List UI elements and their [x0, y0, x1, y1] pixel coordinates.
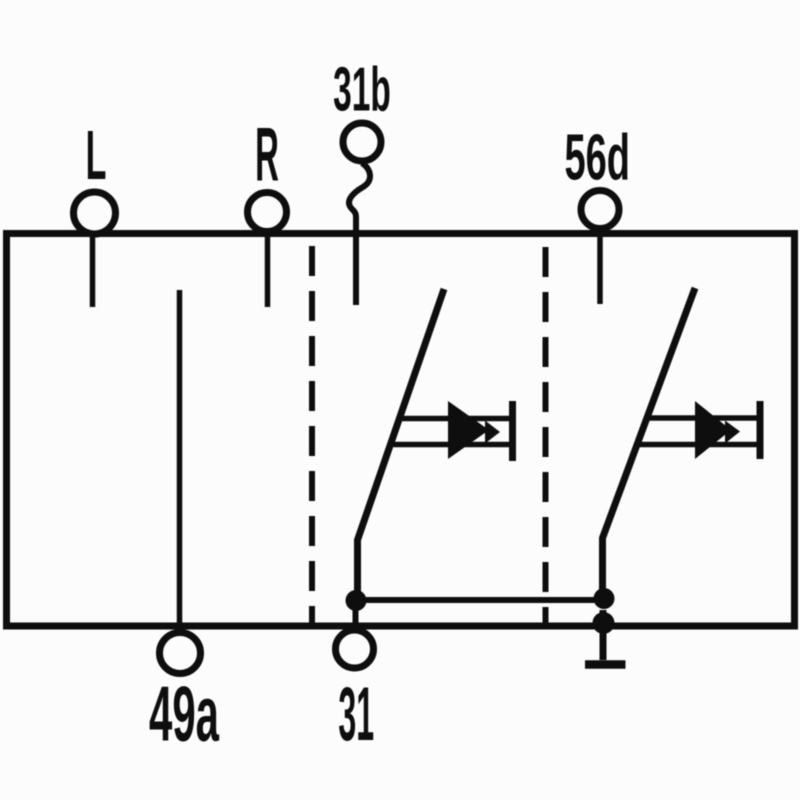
svg-text:49a: 49a: [149, 671, 220, 758]
svg-text:31b: 31b: [333, 55, 391, 125]
svg-text:31: 31: [338, 672, 374, 757]
svg-text:R: R: [255, 113, 279, 197]
svg-text:L: L: [86, 115, 107, 194]
svg-text:56d: 56d: [564, 122, 630, 194]
